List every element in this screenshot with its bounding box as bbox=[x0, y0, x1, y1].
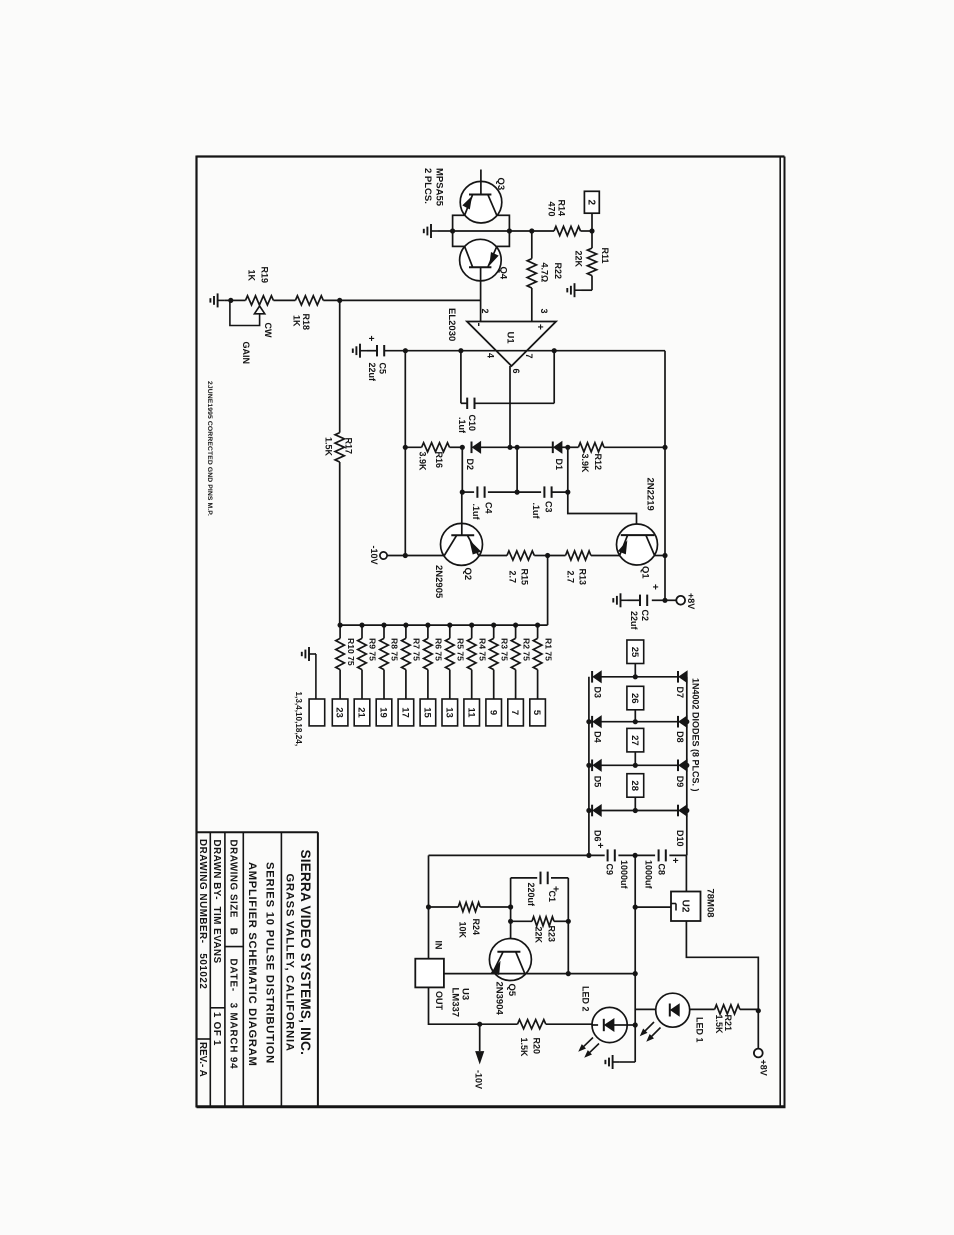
wire pin4/7 supply rail bbox=[403, 348, 665, 600]
svg-text:+: + bbox=[649, 584, 660, 590]
svg-text:+: + bbox=[594, 843, 605, 849]
svg-text:CW: CW bbox=[263, 323, 273, 338]
svg-text:2JUNE1995 CORRECTED GND PINS: 2JUNE1995 CORRECTED GND PINS M.P. bbox=[206, 381, 213, 516]
node R14/R11 junction bbox=[589, 228, 594, 233]
svg-text:27: 27 bbox=[629, 735, 640, 746]
svg-text:R5 75: R5 75 bbox=[456, 638, 466, 661]
svg-text:21: 21 bbox=[356, 707, 367, 718]
resistor R15 2.7 bbox=[479, 551, 548, 585]
ground (connector 1,3,4,10,18,24) bbox=[302, 647, 316, 699]
svg-text:R23: R23 bbox=[546, 926, 556, 943]
svg-text:R8 75: R8 75 bbox=[390, 638, 400, 661]
wire op-amp output pin6 bbox=[509, 366, 511, 447]
svg-text:1000uf: 1000uf bbox=[643, 860, 653, 890]
svg-text:R20: R20 bbox=[531, 1038, 541, 1055]
svg-text:11: 11 bbox=[465, 707, 476, 718]
svg-text:R13: R13 bbox=[577, 569, 587, 586]
svg-text:R22: R22 bbox=[553, 263, 563, 280]
svg-text:25: 25 bbox=[629, 647, 640, 658]
diode D1 bbox=[553, 442, 568, 471]
connector 27 bbox=[627, 728, 644, 768]
svg-text:AMPLIFIER SCHEMATIC DIAGRAM: AMPLIFIER SCHEMATIC DIAGRAM bbox=[246, 862, 258, 1067]
svg-text:C10: C10 bbox=[467, 415, 477, 432]
svg-text:U2: U2 bbox=[679, 900, 690, 913]
svg-text:LM337: LM337 bbox=[450, 988, 461, 1018]
resistor R11 22K bbox=[573, 231, 610, 290]
svg-text:D8: D8 bbox=[675, 731, 685, 743]
svg-text:220uf: 220uf bbox=[526, 883, 536, 908]
svg-text:DRAWING SIZE B: DRAWING SIZE B bbox=[228, 840, 239, 936]
svg-text:2N2905: 2N2905 bbox=[433, 565, 444, 599]
svg-text:1,3,4,10,18,24,: 1,3,4,10,18,24, bbox=[294, 692, 303, 747]
svg-text:4.7Ω: 4.7Ω bbox=[539, 263, 549, 283]
diode D10 bbox=[635, 805, 689, 847]
svg-text:R17: R17 bbox=[343, 438, 353, 455]
connector 19 bbox=[376, 699, 392, 726]
connector 28 bbox=[627, 774, 644, 813]
svg-text:28: 28 bbox=[629, 780, 640, 791]
node D1 cathode bbox=[565, 445, 570, 450]
svg-text:R19: R19 bbox=[259, 267, 269, 284]
svg-text:C5: C5 bbox=[377, 363, 387, 375]
svg-text:4: 4 bbox=[485, 353, 495, 358]
potentiometer R19 1K bbox=[230, 267, 296, 365]
wire diode right rail bbox=[686, 677, 688, 856]
svg-text:D2: D2 bbox=[465, 459, 475, 471]
node Q1 collector bbox=[662, 553, 667, 558]
wire rail to D1 bbox=[510, 445, 553, 450]
node -10V branch bbox=[477, 1022, 482, 1027]
resistor R21 1.5K bbox=[714, 1005, 759, 1034]
svg-text:D1: D1 bbox=[554, 459, 564, 471]
svg-text:R24: R24 bbox=[471, 919, 481, 936]
svg-text:-10V: -10V bbox=[369, 545, 379, 564]
terminal -10V bbox=[369, 545, 406, 564]
diode D9 bbox=[635, 760, 689, 788]
svg-text:17: 17 bbox=[400, 707, 411, 718]
svg-text:+: + bbox=[534, 324, 545, 330]
resistor R16 3.9K bbox=[403, 443, 463, 471]
svg-text:SIERRA VIDEO SYSTEMS, INC.: SIERRA VIDEO SYSTEMS, INC. bbox=[298, 850, 313, 1056]
svg-text:19: 19 bbox=[378, 707, 389, 718]
svg-text:D6: D6 bbox=[592, 830, 602, 842]
node R18/R17 junction bbox=[337, 298, 342, 303]
svg-text:R18: R18 bbox=[301, 314, 311, 331]
svg-text:.1uf: .1uf bbox=[457, 417, 467, 434]
svg-text:3.9K: 3.9K bbox=[417, 452, 427, 472]
wire R15 node drop bbox=[547, 556, 549, 626]
svg-text:R10 75: R10 75 bbox=[346, 638, 356, 666]
svg-text:R11: R11 bbox=[600, 248, 610, 264]
ground (input pot) bbox=[210, 293, 230, 307]
resistor R23 22K bbox=[508, 907, 571, 944]
svg-text:R12: R12 bbox=[593, 454, 603, 471]
wire emitter rail bbox=[450, 228, 554, 233]
svg-text:DATE- 3 MARCH 94: DATE- 3 MARCH 94 bbox=[228, 959, 239, 1070]
svg-text:1K: 1K bbox=[246, 270, 256, 282]
connector 13 bbox=[442, 699, 458, 726]
resistor R24 10K bbox=[429, 902, 511, 938]
svg-text:Q5: Q5 bbox=[506, 984, 517, 997]
wire U2 output to R21 bbox=[686, 921, 758, 1011]
svg-text:22uf: 22uf bbox=[629, 611, 639, 631]
node R21 junction bbox=[756, 1008, 761, 1013]
node input junction bbox=[228, 298, 233, 303]
svg-text:-10V: -10V bbox=[473, 1070, 483, 1089]
svg-text:3.9K: 3.9K bbox=[580, 454, 590, 474]
svg-text:R16: R16 bbox=[434, 452, 444, 469]
svg-text:2.7: 2.7 bbox=[565, 571, 575, 584]
svg-text:+: + bbox=[669, 858, 680, 864]
node R15/R13 junction bbox=[545, 553, 550, 558]
LED 1 bbox=[635, 993, 714, 1042]
capacitor C2 22uf bbox=[613, 584, 665, 631]
resistor R14 470 bbox=[546, 200, 592, 236]
svg-text:2: 2 bbox=[480, 309, 490, 314]
wire rail left drop bbox=[428, 855, 430, 958]
svg-text:1.5K: 1.5K bbox=[323, 437, 333, 457]
svg-text:9: 9 bbox=[487, 710, 498, 715]
svg-text:C8: C8 bbox=[656, 864, 666, 876]
svg-text:Q3: Q3 bbox=[495, 178, 506, 191]
svg-text:C2: C2 bbox=[640, 610, 650, 622]
diode D3 bbox=[592, 671, 635, 698]
svg-text:SERIES 10 PULSE DISTRIBUTION: SERIES 10 PULSE DISTRIBUTION bbox=[264, 862, 276, 1064]
svg-text:R1 75: R1 75 bbox=[543, 638, 553, 661]
svg-text:D5: D5 bbox=[592, 776, 602, 788]
regulator U2 78M08 bbox=[671, 855, 716, 921]
svg-text:+8V: +8V bbox=[686, 593, 696, 609]
resistor R8 75 bbox=[380, 623, 400, 700]
capacitor C8 1000uf bbox=[635, 849, 686, 889]
connector 26 bbox=[627, 686, 644, 724]
label drawing title bbox=[246, 862, 275, 1067]
resistor R3 75 bbox=[489, 623, 509, 700]
svg-text:470: 470 bbox=[546, 202, 556, 217]
svg-text:7: 7 bbox=[524, 354, 534, 359]
svg-text:GRASS VALLEY, CALIFORNIA: GRASS VALLEY, CALIFORNIA bbox=[284, 874, 296, 1052]
svg-text:2N3904: 2N3904 bbox=[494, 982, 505, 1016]
svg-text:MPSA55: MPSA55 bbox=[434, 168, 445, 207]
svg-text:5: 5 bbox=[531, 710, 542, 716]
resistor R18 1K bbox=[291, 296, 339, 330]
svg-text:DRAWING NUMBER- 501022: DRAWING NUMBER- 501022 bbox=[197, 839, 208, 989]
border frame bbox=[197, 156, 786, 1108]
title block bbox=[197, 832, 318, 1106]
diode D6 bbox=[586, 805, 635, 842]
wire U3 out bbox=[429, 987, 518, 1024]
resistor R4 75 bbox=[467, 623, 487, 700]
svg-text:22uf: 22uf bbox=[367, 363, 377, 383]
svg-text:D3: D3 bbox=[592, 687, 602, 699]
svg-text:C3: C3 bbox=[543, 501, 553, 513]
wire output rail bbox=[415, 971, 638, 976]
svg-text:Q4: Q4 bbox=[498, 267, 509, 280]
node C4 left bbox=[460, 490, 465, 495]
terminal +8V (output) bbox=[754, 1011, 768, 1076]
svg-text:C1: C1 bbox=[547, 891, 557, 903]
connector 2 bbox=[584, 191, 599, 231]
wire D2 drop bbox=[461, 447, 463, 492]
svg-text:.1uf: .1uf bbox=[471, 504, 481, 521]
resistor R2 75 bbox=[511, 623, 531, 700]
svg-text:2.7: 2.7 bbox=[507, 571, 517, 584]
transistor Q5 2N3904 bbox=[489, 921, 531, 1015]
wire rectifier rail bbox=[429, 853, 605, 858]
regulator U3 LM337 bbox=[415, 941, 470, 1018]
node LED2 cathode bbox=[633, 1022, 638, 1027]
ground (LED) bbox=[605, 1055, 635, 1069]
svg-text:OUT: OUT bbox=[434, 991, 444, 1011]
svg-text:R14: R14 bbox=[556, 200, 566, 217]
connector 17 bbox=[398, 699, 414, 726]
label company name bbox=[284, 850, 314, 1056]
resistor R22 4.7ohm bbox=[527, 228, 563, 321]
svg-text:D10: D10 bbox=[675, 830, 685, 847]
connector 25 bbox=[627, 640, 644, 679]
svg-text:1000uf: 1000uf bbox=[619, 860, 629, 890]
svg-text:R4 75: R4 75 bbox=[477, 638, 487, 661]
diode D4 bbox=[586, 716, 635, 743]
svg-text:3: 3 bbox=[539, 309, 549, 314]
svg-text:D4: D4 bbox=[592, 731, 602, 743]
capacitor C9 1000uf bbox=[594, 843, 635, 890]
svg-text:2 PLCS.: 2 PLCS. bbox=[422, 168, 433, 204]
svg-text:1 OF 1: 1 OF 1 bbox=[211, 1012, 222, 1046]
diode D5 bbox=[586, 760, 635, 788]
svg-text:Q1: Q1 bbox=[640, 566, 651, 579]
svg-text:2: 2 bbox=[585, 200, 596, 206]
wire ladder bus bbox=[340, 624, 548, 626]
svg-text:1K: 1K bbox=[291, 315, 301, 327]
capacitor C1 220uf bbox=[511, 872, 569, 922]
wire to op-amp pin2 bbox=[340, 299, 481, 301]
op-amp U1 EL2030 bbox=[446, 308, 556, 374]
svg-text:2N2219: 2N2219 bbox=[645, 478, 656, 511]
svg-text:R2 75: R2 75 bbox=[521, 638, 531, 661]
resistor R5 75 bbox=[446, 623, 466, 700]
label drawing size / date bbox=[228, 840, 239, 1070]
resistor R6 75 bbox=[424, 623, 444, 700]
svg-text:LED 2: LED 2 bbox=[580, 986, 590, 1012]
node C2 junction bbox=[662, 598, 667, 603]
node R12/collector rail bbox=[662, 445, 667, 450]
capacitor C4 .1uf bbox=[462, 486, 541, 520]
resistor R13 2.7 bbox=[548, 551, 620, 585]
svg-text:Q2: Q2 bbox=[462, 568, 473, 581]
node C9/C8 junction bbox=[633, 853, 638, 858]
wire pin6 drop bbox=[516, 447, 518, 492]
wire R23 right drop bbox=[567, 921, 569, 973]
diode D7 bbox=[635, 671, 687, 698]
svg-text:R3 75: R3 75 bbox=[499, 638, 509, 661]
svg-text:REV.- A: REV.- A bbox=[197, 1042, 208, 1077]
svg-text:D9: D9 bbox=[675, 776, 685, 788]
resistor R1 75 bbox=[533, 623, 553, 700]
connector 1,3,4,10,18,24 bbox=[294, 692, 325, 747]
terminal +8V (C2) bbox=[665, 593, 696, 609]
svg-text:+: + bbox=[365, 336, 376, 342]
resistor R12 3.9K bbox=[568, 443, 665, 473]
connector 9 bbox=[486, 699, 502, 726]
capacitor C5 22uf bbox=[353, 336, 406, 383]
node Q5 base junction bbox=[508, 904, 513, 909]
connector 5 bbox=[530, 699, 546, 726]
node R24 left bbox=[426, 904, 431, 909]
svg-text:D7: D7 bbox=[675, 687, 685, 699]
resistor R10 75 bbox=[336, 623, 356, 700]
wire C5 branch vertical bbox=[404, 351, 406, 556]
svg-text:6: 6 bbox=[511, 369, 521, 374]
svg-text:22K: 22K bbox=[533, 927, 543, 944]
svg-text:R9 75: R9 75 bbox=[368, 638, 378, 661]
svg-text:+8V: +8V bbox=[758, 1060, 768, 1076]
connector 23 bbox=[332, 699, 348, 726]
node pin6 junction bbox=[507, 445, 512, 450]
ground (Q3/Q4 emitters) bbox=[424, 224, 453, 238]
svg-text:C4: C4 bbox=[483, 502, 493, 514]
diode D8 bbox=[635, 716, 689, 743]
svg-text:DRAWN BY- TIM EVANS: DRAWN BY- TIM EVANS bbox=[211, 840, 222, 964]
svg-text:13: 13 bbox=[443, 707, 454, 718]
svg-text:10K: 10K bbox=[457, 922, 467, 939]
wire D1 node to Q1 base bbox=[568, 447, 637, 535]
capacitor C3 .1uf bbox=[531, 486, 568, 519]
svg-text:R6 75: R6 75 bbox=[434, 638, 444, 661]
svg-text:EL2030: EL2030 bbox=[446, 308, 457, 341]
wire diode left rail bbox=[588, 677, 590, 856]
resistor R17 1.5K bbox=[323, 300, 353, 625]
connector 7 bbox=[508, 699, 524, 726]
svg-text:1N4002 DIODES (8 PLCS. ): 1N4002 DIODES (8 PLCS. ) bbox=[690, 678, 700, 792]
resistor R9 75 bbox=[358, 623, 378, 700]
svg-text:C9: C9 bbox=[604, 864, 614, 876]
connector 21 bbox=[354, 699, 370, 726]
svg-text:U1: U1 bbox=[505, 332, 516, 345]
LED 2 bbox=[579, 986, 635, 1057]
transistor Q3 MPSA55 bbox=[460, 170, 506, 224]
wire U2 input bbox=[633, 905, 671, 910]
svg-text:LED 1: LED 1 bbox=[694, 1017, 704, 1043]
svg-text:IN: IN bbox=[433, 941, 443, 950]
wire C9 mid drop bbox=[634, 855, 636, 1062]
svg-text:1.5K: 1.5K bbox=[714, 1015, 724, 1035]
svg-text:26: 26 bbox=[629, 693, 640, 704]
transistor Q4 MPSA55 bbox=[460, 239, 509, 321]
terminal -10V (arrow) bbox=[473, 1024, 483, 1089]
node -10V junction bbox=[403, 553, 408, 558]
svg-text:R7 75: R7 75 bbox=[412, 638, 422, 661]
node C3 right bbox=[565, 490, 570, 495]
resistor R20 1.5K bbox=[518, 1020, 593, 1057]
ground (R11) bbox=[567, 283, 592, 297]
svg-text:15: 15 bbox=[421, 707, 432, 718]
svg-text:1.5K: 1.5K bbox=[519, 1038, 529, 1058]
capacitor C10 .1uf bbox=[457, 351, 554, 434]
label drawn by / sheet bbox=[211, 840, 222, 1047]
connector 11 bbox=[464, 699, 480, 726]
svg-text:-: - bbox=[473, 323, 487, 327]
node pin6/C3 junction bbox=[515, 490, 520, 495]
label drawing number / rev bbox=[197, 839, 208, 1077]
svg-text:R15: R15 bbox=[519, 569, 529, 586]
svg-text:23: 23 bbox=[334, 707, 345, 718]
wire -10V to Q2 bbox=[405, 555, 444, 557]
transistor Q2 2N2905 bbox=[433, 492, 482, 599]
connector 15 bbox=[420, 699, 436, 726]
svg-text:78M08: 78M08 bbox=[705, 889, 716, 918]
svg-text:.1uf: .1uf bbox=[531, 503, 541, 520]
diode D2 bbox=[465, 442, 510, 471]
wire Q3/Q4 frame box bbox=[453, 215, 510, 246]
svg-text:7: 7 bbox=[509, 710, 520, 715]
transistor Q1 2N2219 bbox=[617, 478, 666, 580]
svg-text:GAIN: GAIN bbox=[241, 342, 251, 365]
node D2 cathode bbox=[460, 445, 465, 450]
svg-text:22K: 22K bbox=[573, 251, 583, 268]
resistor R7 75 bbox=[402, 623, 422, 700]
label MPSA55 2 PLCS. bbox=[422, 168, 445, 207]
